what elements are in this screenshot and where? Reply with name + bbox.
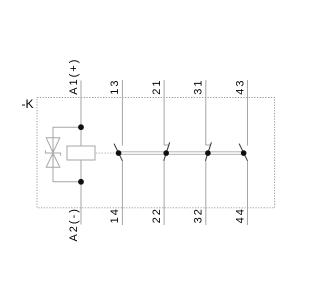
contact 43-44 lower terminal wire [247,161,249,226]
contact 21-22 NC blade [164,142,170,161]
coil K1 [67,146,95,160]
wire suppressor branch [53,127,81,182]
mechanical linkage bar (double line) [119,152,244,155]
junction node coil bottom [78,179,84,185]
svg-text:-K: -K [22,97,34,111]
svg-text:A2(-): A2(-) [68,207,80,241]
junction node contact 13-14 [116,150,122,156]
junction node contact 21-22 [163,150,169,156]
svg-text:22: 22 [151,207,163,223]
suppressor diode V1 (bidirectional TVS) [45,138,60,167]
svg-text:21: 21 [151,79,163,95]
junction node coil top [78,124,84,130]
svg-text:32: 32 [193,207,205,223]
svg-text:44: 44 [234,207,246,223]
junction node contact 43-44 [241,150,247,156]
contact 31-32 upper terminal wire with seat [206,80,211,145]
contact 21-22 lower terminal wire [163,161,165,226]
svg-text:43: 43 [234,79,246,95]
wire A1 to coil [80,81,82,147]
svg-text:A1(+): A1(+) [68,58,80,95]
junction node contact 31-32 [205,150,211,156]
contact 13-14 lower terminal wire [121,161,123,226]
svg-text:13: 13 [109,79,121,95]
svg-text:14: 14 [109,207,121,223]
contact 13-14 upper terminal wire [121,80,123,146]
contact 13-14 NO blade [114,144,122,161]
svg-text:31: 31 [193,79,205,95]
contact 31-32 NC blade [205,142,211,161]
contact 43-44 NO blade [239,144,247,161]
mechanical link coil to contacts (dashed) [96,152,116,154]
wire coil to A2 [80,160,82,225]
relay boundary box -K (dashed) [37,98,275,208]
contact 21-22 upper terminal wire with seat [164,80,169,145]
contact 43-44 upper terminal wire [247,80,249,146]
contact 31-32 lower terminal wire [205,161,207,226]
